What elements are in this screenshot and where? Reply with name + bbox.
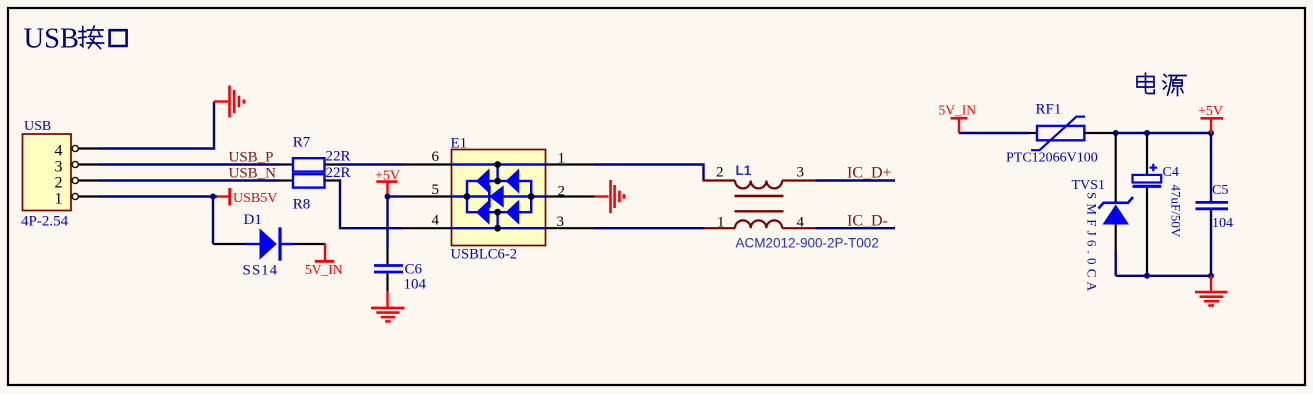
power port 5V_IN (at D1 cathode): [305, 243, 343, 277]
title USB接口: [24, 24, 127, 55]
E1 diode top-left: [476, 168, 490, 193]
bottom rail wire: [1116, 275, 1211, 277]
ESD array E1 USBLC6-2: [451, 135, 546, 262]
wire pin4 to ground: [99, 102, 214, 149]
svg-text:+5V: +5V: [1198, 104, 1223, 119]
power port USB5V: [217, 188, 277, 206]
svg-text:4: 4: [55, 143, 63, 160]
svg-text:USBLC6-2: USBLC6-2: [451, 247, 518, 263]
svg-text:2: 2: [716, 165, 724, 181]
E1 pin 4: [403, 213, 452, 229]
ground (right of E1 pin2): [595, 180, 624, 213]
svg-text:4: 4: [432, 213, 440, 229]
junction rail/+5V/C5: [1208, 130, 1214, 136]
diode D1 SS14: [213, 212, 325, 278]
capacitor C5 104: [1196, 133, 1234, 276]
wire USB_P net: [99, 163, 279, 165]
junction at D1 branch: [210, 194, 216, 200]
svg-text:R7: R7: [293, 134, 311, 150]
svg-text:USB: USB: [24, 24, 79, 55]
wire 5V_IN to RF1: [959, 132, 1029, 134]
svg-text:IC_D-: IC_D-: [847, 212, 888, 229]
E1 diode top-right: [506, 168, 520, 193]
E1 junction dots: [464, 161, 535, 232]
svg-text:3: 3: [797, 165, 805, 181]
wire IC_D+ net: [816, 179, 896, 181]
svg-text:4P-2.54: 4P-2.54: [21, 214, 69, 230]
E1 diode bottom-right: [506, 200, 520, 225]
E1 internal rails: [452, 165, 545, 229]
pin 2 of USB: [72, 177, 100, 183]
svg-text:ACM2012-900-2P-T002: ACM2012-900-2P-T002: [736, 236, 879, 251]
svg-text:47uF/50V: 47uF/50V: [1168, 185, 1183, 238]
wire IC_D- net: [816, 227, 896, 229]
wire E1 pin3 to L1 pin1: [595, 227, 705, 229]
TVS1 SMFJ6.0CA zener: [1072, 133, 1134, 295]
wire R7 to E1 pin6: [339, 163, 404, 165]
pin 3 of USB: [72, 161, 100, 167]
capacitor C6 104: [374, 248, 427, 293]
svg-text:1: 1: [55, 191, 63, 208]
svg-text:1: 1: [558, 151, 566, 167]
junction rail/C4: [1144, 130, 1150, 136]
resistor R8 22R: [279, 165, 351, 213]
svg-text:104: 104: [404, 277, 427, 293]
E1 pin 5: [403, 182, 452, 198]
wire USB_N net: [99, 179, 279, 181]
svg-text:C6: C6: [405, 261, 423, 277]
label IC_D-: [847, 212, 888, 229]
svg-text:TVS1: TVS1: [1072, 178, 1105, 193]
svg-text:USB: USB: [24, 119, 51, 134]
E1 diode bottom-left: [476, 200, 490, 225]
E1 pin 2: [545, 184, 595, 200]
svg-text:22R: 22R: [326, 149, 351, 165]
svg-text:SS14: SS14: [243, 263, 279, 279]
capacitor C4 47uF/50V: [1133, 133, 1184, 276]
ground (top, sideways power ground): [214, 86, 244, 118]
wire E1 pin1 to L1 pin2: [595, 165, 704, 181]
resistor R7 22R: [279, 134, 351, 171]
junction rail/TVS: [1113, 130, 1119, 136]
svg-text:5: 5: [432, 182, 440, 198]
svg-text:3: 3: [557, 214, 565, 230]
ground (power section): [1195, 276, 1228, 306]
pin 4 of USB: [72, 145, 100, 151]
fuse RF1 PTC12066V100: [1006, 102, 1116, 166]
junction bottom/C5/gnd: [1208, 273, 1214, 279]
svg-text:22R: 22R: [326, 165, 351, 181]
pin 1 of USB: [72, 193, 100, 199]
svg-text:104: 104: [1212, 216, 1233, 231]
svg-text:USB_N: USB_N: [229, 166, 277, 182]
E1 pin 1: [545, 151, 595, 167]
svg-text:PTC12066V100: PTC12066V100: [1006, 150, 1098, 165]
svg-text:6: 6: [432, 149, 440, 165]
svg-text:SMFJ6.0CA: SMFJ6.0CA: [1085, 192, 1100, 295]
power +5V (right): [1198, 104, 1223, 133]
power +5V (left): [375, 168, 400, 196]
svg-text:R8: R8: [293, 196, 311, 212]
svg-text:IC_D+: IC_D+: [847, 165, 892, 182]
svg-text:RF1: RF1: [1036, 102, 1062, 118]
E1 zener center: [489, 185, 503, 207]
svg-text:C5: C5: [1212, 183, 1228, 198]
svg-text:E1: E1: [451, 135, 468, 151]
svg-text:3: 3: [55, 159, 63, 176]
ground (below C6): [371, 291, 405, 321]
choke L1 ACM2012-900-2P-T002: [703, 163, 879, 250]
wire +5V junction to E1 pin5: [388, 195, 404, 197]
E1 pin 3: [545, 214, 595, 230]
svg-text:USB_P: USB_P: [229, 150, 274, 166]
wire C6 column: [386, 197, 388, 249]
power port 5V_IN (power section): [939, 103, 977, 133]
svg-text:2: 2: [55, 175, 63, 192]
svg-text:5V_IN: 5V_IN: [939, 103, 977, 118]
junction +5V / E1 pin5 / C6: [385, 194, 391, 200]
label USB_P: [229, 150, 274, 166]
power rail wire: [1116, 132, 1211, 134]
svg-text:5V_IN: 5V_IN: [305, 262, 343, 277]
svg-text:C4: C4: [1163, 165, 1179, 180]
svg-text:2: 2: [558, 184, 566, 200]
svg-text:1: 1: [717, 215, 725, 231]
svg-text:4: 4: [797, 215, 805, 231]
label IC_D+: [847, 165, 892, 182]
junction bottom/C4: [1144, 273, 1150, 279]
svg-text:L1: L1: [736, 163, 752, 178]
wire USB5V net: [99, 195, 217, 197]
svg-text:D1: D1: [244, 212, 262, 228]
connector USB 4P-2.54: [21, 119, 71, 230]
wire USB5V down to D1: [212, 197, 214, 245]
label USB_N: [229, 166, 277, 182]
title 电源: [1137, 73, 1186, 95]
E1 pin 6: [403, 149, 452, 165]
svg-text:USB5V: USB5V: [233, 191, 277, 206]
wire R8 to E1 pin4: [339, 181, 404, 229]
